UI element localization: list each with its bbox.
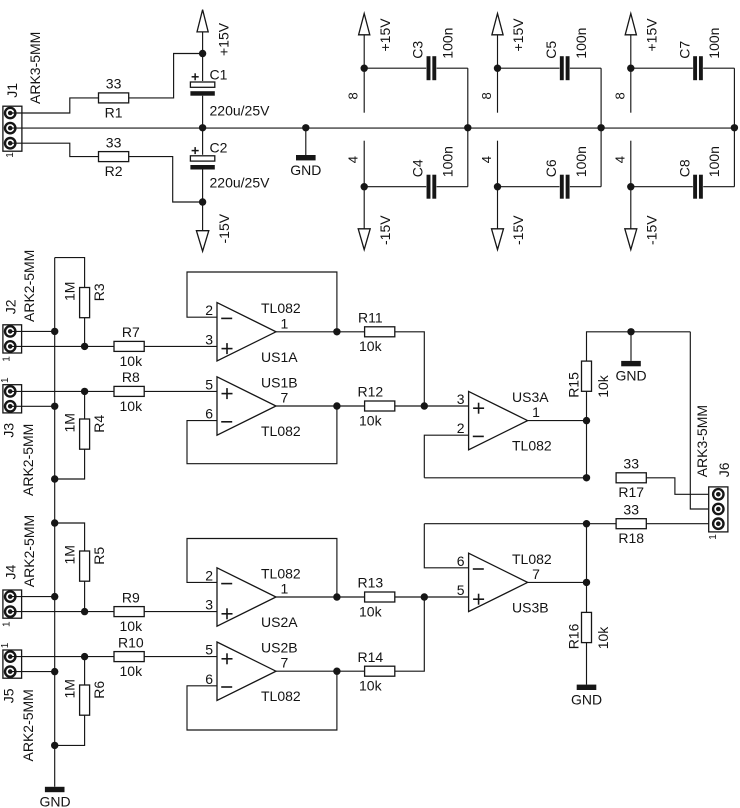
svg-text:+15V: +15V	[644, 18, 660, 52]
wire R2 to -15V node	[129, 157, 203, 202]
svg-text:ARK3-5MM: ARK3-5MM	[694, 405, 710, 477]
svg-text:1: 1	[281, 315, 289, 331]
power -15V (C2)	[196, 213, 232, 251]
svg-text:10k: 10k	[359, 412, 383, 428]
wire J5 pin1 to R10	[10, 656, 114, 658]
svg-text:C4: C4	[410, 159, 426, 177]
svg-text:GND: GND	[39, 794, 70, 808]
resistor R4 (1M)	[62, 413, 107, 449]
wire R16 top	[586, 582, 588, 612]
wire C7 top link	[631, 67, 735, 69]
svg-text:220u/25V: 220u/25V	[210, 102, 271, 118]
wire R7 to US1A pin3	[144, 345, 217, 347]
wire R14 to sum node	[395, 597, 425, 671]
svg-text:100n: 100n	[440, 146, 456, 177]
junction US1B output	[333, 402, 340, 409]
svg-text:ARK2-5MM: ARK2-5MM	[21, 250, 37, 322]
wire J4 pin2 to bus	[10, 596, 55, 598]
wire GND rail to C2	[202, 128, 204, 156]
wire R6 top	[84, 657, 86, 685]
junction -15V node (C6)	[494, 183, 501, 190]
wire R1 to +15V node	[129, 54, 203, 98]
svg-text:100n: 100n	[706, 146, 722, 177]
wire R8 to US1B pin5	[144, 390, 217, 392]
svg-text:GND: GND	[290, 162, 321, 178]
svg-text:J1: J1	[4, 83, 20, 98]
junction rail (C5)	[597, 124, 604, 131]
svg-text:10k: 10k	[359, 678, 383, 694]
junction J5 ground	[51, 668, 58, 675]
junction +15V node (C5)	[494, 65, 501, 72]
junction R13/R14 sum	[421, 593, 428, 600]
resistor R16 (10k)	[565, 612, 611, 649]
junction +15V node (C7)	[627, 65, 634, 72]
svg-text:1: 1	[5, 152, 16, 158]
resistor R11 (10k)	[358, 310, 395, 355]
svg-text:33: 33	[106, 134, 122, 150]
svg-text:J6: J6	[716, 462, 732, 477]
svg-text:10k: 10k	[120, 663, 144, 679]
ground GND (US3B)	[571, 685, 602, 708]
svg-text:1: 1	[2, 621, 13, 627]
resistor R10 (10k)	[114, 634, 144, 679]
svg-text:33: 33	[623, 456, 639, 472]
svg-text:100n: 100n	[573, 146, 589, 177]
svg-text:US2B: US2B	[261, 640, 298, 656]
junction US3A fb/R17	[583, 474, 590, 481]
wire R18 to J6 pin1	[646, 523, 708, 525]
wire feedback rail US3B	[424, 523, 586, 525]
svg-text:R9: R9	[122, 589, 140, 605]
resistor R12 (10k)	[357, 384, 394, 429]
resistor R9 (10k)	[114, 589, 144, 634]
connector J3 (ARK2-5MM)	[0, 377, 36, 496]
svg-text:10k: 10k	[359, 338, 383, 354]
svg-text:10k: 10k	[359, 603, 383, 619]
wire R18 left	[587, 523, 617, 525]
svg-text:10k: 10k	[120, 353, 144, 369]
svg-text:C6: C6	[543, 159, 559, 177]
svg-text:US1B: US1B	[261, 374, 298, 390]
svg-text:R2: R2	[105, 163, 123, 179]
svg-text:C2: C2	[210, 140, 228, 156]
wire US3A feedback	[424, 435, 468, 478]
wire C2 to -15V node	[202, 170, 204, 203]
junction R6/R10 node	[81, 653, 88, 660]
wire R12 to US3A	[395, 405, 469, 407]
wire C8 bottom link	[631, 186, 735, 188]
svg-text:1M: 1M	[62, 679, 78, 698]
junction +15V node (C3)	[361, 65, 368, 72]
svg-text:R5: R5	[91, 547, 107, 565]
svg-text:GND: GND	[615, 367, 646, 383]
svg-text:1: 1	[708, 534, 719, 540]
junction US2B output	[333, 668, 340, 675]
wire J1 pin3 to R1	[10, 98, 98, 113]
wire bus jog to R5	[55, 523, 85, 551]
svg-text:C1: C1	[210, 66, 228, 82]
junction J3 ground	[51, 403, 58, 410]
svg-text:7: 7	[532, 566, 540, 582]
capacitor C8 (100n)	[693, 174, 703, 200]
wire US1A feedback	[187, 272, 337, 332]
wire R11 to sum node	[395, 332, 425, 406]
svg-text:R16: R16	[565, 623, 581, 649]
wire R15 bottom	[586, 391, 588, 421]
svg-text:C7: C7	[676, 41, 692, 59]
svg-text:R1: R1	[105, 104, 123, 120]
svg-text:J2: J2	[3, 299, 19, 314]
wire R5 to R9 node	[84, 581, 86, 611]
wire US1A output	[276, 331, 365, 333]
svg-text:1: 1	[0, 642, 11, 648]
power +15V (C3 block)	[359, 14, 393, 52]
svg-text:TL082: TL082	[261, 300, 301, 316]
wire +15V arrow stem	[202, 32, 204, 54]
svg-text:TL082: TL082	[261, 688, 301, 704]
wire J4 pin1 to R9	[10, 611, 114, 613]
svg-text:1: 1	[2, 356, 13, 362]
svg-text:R3: R3	[91, 283, 107, 301]
junction R5/R9 node	[81, 608, 88, 615]
junction J4 ground	[51, 593, 58, 600]
resistor R2 (33)	[99, 134, 129, 179]
wire C4 to rail	[467, 128, 469, 187]
svg-text:100n: 100n	[440, 28, 456, 59]
connector J5 (ARK2-5MM)	[0, 642, 36, 761]
wire C3 top link	[364, 67, 468, 69]
junction J2 ground	[51, 328, 58, 335]
svg-text:ARK2-5MM: ARK2-5MM	[21, 515, 37, 587]
svg-text:3: 3	[205, 597, 213, 613]
svg-text:7: 7	[281, 655, 289, 671]
svg-text:C5: C5	[543, 41, 559, 59]
junction GND on rail	[302, 124, 309, 131]
wire +15V stem (C5)	[497, 35, 499, 68]
op-amp US2A (TL082)	[217, 568, 276, 626]
svg-text:4: 4	[346, 156, 361, 163]
svg-text:8: 8	[346, 92, 361, 99]
junction GND line	[627, 328, 634, 335]
svg-text:ARK2-5MM: ARK2-5MM	[20, 689, 36, 761]
resistor R6 (1M)	[62, 679, 107, 715]
svg-text:J5: J5	[1, 688, 17, 703]
junction US1A output	[333, 328, 340, 335]
connector J6 (ARK3-5MM)	[694, 405, 732, 540]
wire R4 top	[84, 391, 86, 419]
svg-text:R11: R11	[358, 310, 383, 326]
wire US3B feedback	[424, 524, 468, 568]
junction R3/R7 node	[81, 343, 88, 350]
svg-text:1: 1	[532, 404, 540, 420]
wire R9 to US2A pin3	[144, 611, 217, 613]
wire US2A output to US3B pin5	[276, 596, 365, 598]
junction +15V/C1 node	[199, 50, 206, 57]
svg-text:6: 6	[205, 406, 213, 422]
wire J1 pin1 to R2	[10, 143, 98, 156]
wire US2A feedback	[187, 539, 337, 598]
resistor R15 (10k)	[565, 361, 611, 398]
svg-text:8: 8	[612, 92, 627, 99]
svg-text:6: 6	[205, 671, 213, 687]
svg-text:R15: R15	[565, 372, 581, 398]
wire J3 pin1 to R8	[10, 390, 114, 392]
svg-text:TL082: TL082	[512, 551, 552, 567]
svg-text:R6: R6	[91, 681, 107, 699]
svg-text:3: 3	[205, 331, 213, 347]
wire R10 to US2B pin5	[144, 656, 217, 658]
svg-text:R14: R14	[357, 649, 383, 665]
resistor R13 (10k)	[357, 575, 394, 620]
svg-text:US3A: US3A	[512, 389, 549, 405]
wire C3 to rail	[467, 68, 469, 128]
svg-text:TL082: TL082	[261, 423, 301, 439]
svg-text:2: 2	[205, 302, 213, 318]
svg-text:3: 3	[457, 391, 465, 407]
svg-text:TL082: TL082	[261, 565, 301, 581]
wire pin 4 stub (C6)	[497, 141, 499, 187]
wire C6 bottom link	[498, 186, 602, 188]
svg-text:R7: R7	[122, 324, 140, 340]
wire J2 pin1 to R7	[10, 345, 114, 347]
power -15V (C6 block)	[492, 215, 527, 250]
wire C7 to rail	[733, 68, 735, 128]
wire US3A output down	[586, 421, 588, 478]
capacitor C4 (100n)	[426, 174, 436, 200]
wire R17 to J6 pin3	[646, 478, 708, 495]
resistor R14 (10k)	[357, 649, 394, 694]
resistor R1 (33)	[99, 76, 129, 121]
wire R3 to R7 node	[84, 318, 86, 347]
ground GND (rail)	[290, 155, 321, 178]
svg-text:-15V: -15V	[510, 215, 526, 245]
junction -15V node (C8)	[627, 183, 634, 190]
op-amp US2B (TL082)	[217, 642, 276, 700]
wire J2 pin2 to bus	[10, 330, 55, 332]
junction R4/R8 node	[81, 388, 88, 395]
svg-text:R10: R10	[118, 634, 144, 650]
svg-text:R18: R18	[618, 530, 644, 546]
svg-text:R8: R8	[122, 369, 140, 385]
svg-text:TL082: TL082	[512, 438, 552, 454]
svg-text:US1A: US1A	[261, 349, 298, 365]
svg-text:US3B: US3B	[512, 599, 549, 615]
wire US1B output to US3A pin3	[276, 405, 365, 407]
wire +15V stem (C3)	[363, 35, 365, 68]
wire pin 8 stub (C7)	[630, 68, 632, 113]
svg-text:R17: R17	[618, 484, 644, 500]
svg-text:10k: 10k	[120, 398, 144, 414]
svg-text:2: 2	[205, 567, 213, 583]
junction -15V/C2 node	[199, 198, 206, 205]
wire C5 to rail	[600, 68, 602, 128]
svg-text:-15V: -15V	[216, 213, 232, 243]
wire pin 4 stub (C8)	[630, 141, 632, 187]
svg-text:+15V: +15V	[377, 18, 393, 52]
capacitor C1 (220u/25V)	[190, 73, 215, 96]
wire -15V arrow stem	[202, 202, 204, 231]
wire J5 pin2 to bus	[10, 671, 55, 673]
connector J4 (ARK2-5MM)	[2, 515, 38, 627]
svg-text:100n: 100n	[706, 28, 722, 59]
power +15V (C7 block)	[625, 14, 659, 52]
capacitor C7 (100n)	[693, 55, 703, 81]
svg-text:J4: J4	[3, 565, 19, 580]
svg-text:8: 8	[479, 92, 494, 99]
wire -15V stem (C4)	[363, 187, 365, 229]
svg-text:5: 5	[457, 582, 465, 598]
svg-text:5: 5	[205, 642, 213, 658]
junction US2A output	[333, 593, 340, 600]
svg-text:C3: C3	[410, 41, 426, 59]
svg-text:220u/25V: 220u/25V	[210, 174, 271, 190]
svg-text:GND: GND	[571, 692, 602, 708]
svg-text:1: 1	[0, 377, 11, 383]
wire feedback rail US3A	[424, 477, 586, 479]
svg-text:US2A: US2A	[261, 614, 298, 630]
wire GND stub	[305, 128, 307, 155]
svg-text:ARK3-5MM: ARK3-5MM	[27, 32, 43, 104]
op-amp US1B (TL082)	[217, 377, 276, 435]
resistor R17 (33)	[616, 456, 646, 501]
junction US3B fb/R18	[583, 520, 590, 527]
wire pin 4 stub (C4)	[363, 141, 365, 187]
wire US3A output	[528, 420, 587, 422]
power +15V (C5 block)	[492, 14, 526, 52]
wire J3 pin2 to bus	[10, 405, 55, 407]
wire R15 top to GND line	[587, 332, 691, 361]
svg-text:6: 6	[457, 553, 465, 569]
wire -15V stem (C6)	[497, 187, 499, 229]
wire +15V node to C1	[202, 54, 204, 83]
junction rail (C3)	[464, 124, 471, 131]
svg-text:10k: 10k	[595, 626, 611, 650]
svg-text:+15V: +15V	[216, 22, 232, 56]
wire US1B feedback	[187, 406, 337, 464]
svg-text:1M: 1M	[62, 413, 78, 432]
wire US2B output	[276, 670, 365, 672]
connector J2 (ARK2-5MM)	[2, 250, 38, 362]
wire R16 to GND	[586, 643, 588, 685]
svg-text:5: 5	[205, 376, 213, 392]
wire C1 to GND rail	[202, 96, 204, 128]
svg-text:4: 4	[479, 156, 494, 163]
resistor R7 (10k)	[114, 324, 144, 369]
svg-text:R13: R13	[357, 575, 383, 591]
resistor R18 (33)	[616, 501, 646, 546]
svg-text:+15V: +15V	[510, 18, 526, 52]
ground GND (input bus)	[39, 787, 70, 808]
wire -15V stem (C8)	[630, 187, 632, 229]
power +15V (C1)	[197, 10, 232, 56]
wire GND line to J6 pin2	[690, 332, 708, 509]
wire US3B output up	[586, 524, 588, 583]
svg-text:10k: 10k	[120, 618, 144, 634]
svg-text:-15V: -15V	[644, 215, 660, 245]
svg-text:ARK2-5MM: ARK2-5MM	[20, 424, 36, 496]
wire GND stub (output)	[630, 332, 632, 361]
svg-text:4: 4	[612, 156, 627, 163]
wire +15V stem (C7)	[630, 35, 632, 68]
svg-text:1M: 1M	[62, 282, 78, 301]
capacitor C2 (220u/25V)	[190, 147, 215, 170]
junction C1/C2 on GND rail	[199, 124, 206, 131]
junction -15V node (C4)	[361, 183, 368, 190]
svg-text:R4: R4	[91, 415, 107, 433]
connector J1 (ARK3-5MM)	[3, 32, 43, 158]
svg-text:J3: J3	[1, 423, 17, 438]
capacitor C6 (100n)	[560, 174, 570, 200]
svg-text:10k: 10k	[595, 374, 611, 398]
op-amp US3B (TL082)	[469, 553, 528, 611]
power -15V (C4 block)	[358, 215, 393, 250]
resistor R5 (1M)	[62, 545, 107, 581]
wire R6 to bus jog	[55, 715, 85, 745]
junction R5 ground	[51, 519, 58, 526]
wire R4 to bus jog	[55, 449, 85, 479]
wire ground bus	[54, 258, 56, 787]
svg-text:R12: R12	[357, 384, 383, 400]
wire J1 pin2 GND rail	[10, 127, 734, 129]
junction R4 ground	[51, 475, 58, 482]
wire pin 8 stub (C5)	[497, 68, 499, 113]
svg-text:100n: 100n	[573, 28, 589, 59]
junction R6 ground	[51, 742, 58, 749]
wire C5 top link	[498, 67, 602, 69]
op-amp US1A (TL082)	[217, 303, 276, 361]
capacitor C5 (100n)	[560, 55, 570, 81]
junction US3B output	[583, 579, 590, 586]
resistor R3 (1M)	[62, 282, 107, 318]
wire C8 to rail	[733, 128, 735, 187]
wire R13 to US3B	[395, 596, 469, 598]
svg-text:1: 1	[281, 581, 289, 597]
ground GND (output)	[615, 361, 646, 383]
svg-text:1M: 1M	[62, 545, 78, 564]
svg-text:-15V: -15V	[377, 215, 393, 245]
wire C6 to rail	[600, 128, 602, 187]
svg-text:33: 33	[623, 501, 639, 517]
wire US3B output	[528, 581, 587, 583]
svg-text:2: 2	[457, 420, 465, 436]
svg-text:7: 7	[281, 390, 289, 406]
svg-text:C8: C8	[676, 159, 692, 177]
power -15V (C8 block)	[625, 215, 660, 250]
capacitor C3 (100n)	[426, 55, 436, 81]
wire pin 8 stub (C3)	[363, 68, 365, 113]
junction R11/R12 sum	[421, 402, 428, 409]
junction US3A output	[583, 417, 590, 424]
junction rail (C7)	[731, 124, 738, 131]
svg-text:33: 33	[106, 76, 122, 92]
wire US2B feedback	[187, 671, 337, 730]
wire bus jog to R3	[55, 258, 85, 288]
resistor R8 (10k)	[114, 369, 144, 414]
op-amp US3A (TL082)	[469, 391, 528, 449]
wire C4 bottom link	[364, 186, 468, 188]
